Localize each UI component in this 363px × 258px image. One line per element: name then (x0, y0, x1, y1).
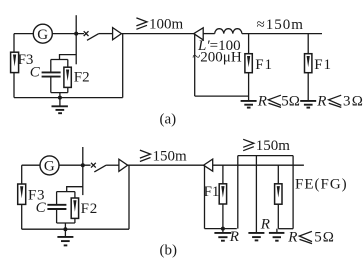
generator G1 circle (33, 24, 52, 43)
surge arrester box (b second, unlabeled) (275, 184, 282, 204)
switch S2 blade (94, 165, 106, 172)
svg-text:R: R (287, 230, 297, 246)
ground symbol (b left) (57, 229, 73, 245)
node: bottom junction dot (b) (63, 227, 67, 231)
ground symbol (b right 2) (248, 233, 264, 241)
wire: antenna stub vertical through junction (82, 147, 84, 195)
svg-text:C: C (30, 65, 41, 81)
label R<=5ohm (b) (287, 230, 335, 246)
ground symbol (a left) (52, 98, 68, 114)
svg-text:R: R (229, 229, 239, 245)
receiving triangle (a right) (194, 28, 204, 40)
wire: transmission line >=100m (121, 33, 193, 35)
wire: top rail left vertical (237, 156, 239, 229)
svg-text:100m: 100m (149, 17, 184, 33)
svg-text:(a): (a) (160, 111, 177, 127)
capacitor C block: outline (51, 60, 68, 93)
node: bottom junction dot (58, 96, 62, 100)
node: junction dot on rail (b) (221, 227, 225, 231)
wire: left vertical branch (13, 34, 15, 98)
ground symbol (b right 3) (269, 229, 285, 241)
svg-text:150m: 150m (153, 149, 188, 165)
wire: second F1 drop (307, 34, 309, 101)
wire: top wire from left corner to switch contact (22, 164, 91, 166)
wire: bottom rail to first ground (195, 95, 249, 97)
svg-text:R: R (260, 217, 270, 233)
wire: step connecting stub to CR block top (67, 187, 83, 192)
wire: block bottom to ground node (59, 93, 61, 98)
inductor L' coil (215, 29, 242, 34)
wire: descending vertical from receiving triangle (b) (204, 165, 206, 228)
svg-text:F1: F1 (314, 57, 331, 73)
wire: descending vertical from receiving triangle (194, 34, 196, 97)
wire: blade to amplifier (99, 33, 113, 35)
svg-text:~200μH: ~200μH (192, 50, 242, 66)
wire: triangle base to inductor (203, 33, 215, 35)
capacitor C plates (42, 72, 61, 76)
wire: second cable top rail >=150m (238, 155, 293, 157)
wire: coil to right end (242, 33, 322, 35)
wire: antenna stub vertical through junction (75, 15, 77, 64)
surge arrester F3 box (b) (18, 184, 26, 204)
svg-text:G: G (44, 159, 55, 175)
label >=150m (b top) (243, 138, 290, 154)
label >=150m (b left) (140, 149, 187, 165)
wire: top rail right vertical (292, 156, 294, 229)
capacitor C block (b): outline (57, 192, 75, 223)
wire: F1 drop (b) (222, 165, 224, 228)
wire: bottom rail 1 (b) (205, 228, 237, 230)
wire: bottom rail 2 (b) (278, 228, 293, 230)
svg-text:5Ω: 5Ω (314, 230, 335, 246)
wire: return vertical from amplifier output down to bottom wire (122, 34, 124, 98)
wire: bottom wire of left loop (14, 97, 123, 99)
label R<=5ohm (a) (257, 93, 300, 109)
switch S1 contact cross (84, 31, 89, 36)
switch S2 contact cross (91, 163, 96, 168)
surge arrester F3 box (11, 52, 19, 72)
svg-text:C: C (36, 200, 47, 216)
svg-text:R: R (316, 93, 326, 109)
ground symbol (a right 1) (241, 101, 257, 108)
wire: first F1 drop (248, 34, 250, 101)
surge arrester F2 box (64, 67, 71, 87)
wire: top rail middle vertical to ground (255, 156, 257, 233)
wire: return vertical from amplifier output down to bottom wire (128, 165, 130, 229)
wire: bottom wire of left loop (22, 228, 129, 230)
capacitor C plates (b) (47, 205, 66, 209)
ground symbol (a right 2) (300, 101, 316, 108)
wire: transmission line >=150m (128, 164, 204, 166)
svg-text:(b): (b) (160, 243, 178, 258)
svg-text:≈150m: ≈150m (257, 17, 304, 33)
surge arrester F1 box (b) (219, 184, 226, 204)
receiving triangle (b right) (204, 159, 213, 171)
svg-text:F1: F1 (204, 184, 220, 200)
wire: block bottom to ground node (b) (64, 223, 66, 229)
node: junction dot on top wire (74, 32, 78, 36)
wire: step connecting stub to CR block top (60, 55, 77, 60)
amplifier/driver triangle (a) (113, 28, 122, 40)
ground symbol (b right 1) (214, 229, 231, 241)
amplifier/driver triangle (b) (119, 159, 128, 171)
wire: left vertical branch (21, 165, 23, 229)
surge arrester F1 box (first) (245, 54, 252, 73)
wire: main wire from triangle to right end (213, 164, 304, 166)
svg-text:G: G (37, 27, 48, 43)
label >=100m (136, 17, 183, 33)
wire: top wire from left corner to switch contact (14, 33, 84, 35)
svg-text:F2: F2 (74, 69, 90, 85)
node: junction dot on top wire (81, 163, 85, 167)
wire: second arrester drop (b) (277, 165, 279, 229)
svg-text:FE(FG): FE(FG) (295, 177, 348, 193)
svg-text:R: R (257, 93, 267, 109)
label R<=3ohm (a) (316, 93, 363, 109)
generator G2 circle (40, 156, 59, 175)
svg-text:F2: F2 (81, 201, 98, 217)
wire: blade to amplifier (106, 164, 119, 166)
surge arrester F1 box (second) (305, 54, 312, 73)
svg-text:150m: 150m (256, 138, 290, 154)
svg-text:3Ω: 3Ω (343, 93, 363, 109)
svg-text:5Ω: 5Ω (281, 93, 300, 109)
switch S1 blade (87, 34, 99, 41)
surge arrester F2 box (b) (71, 198, 78, 218)
svg-text:F1: F1 (255, 57, 272, 73)
